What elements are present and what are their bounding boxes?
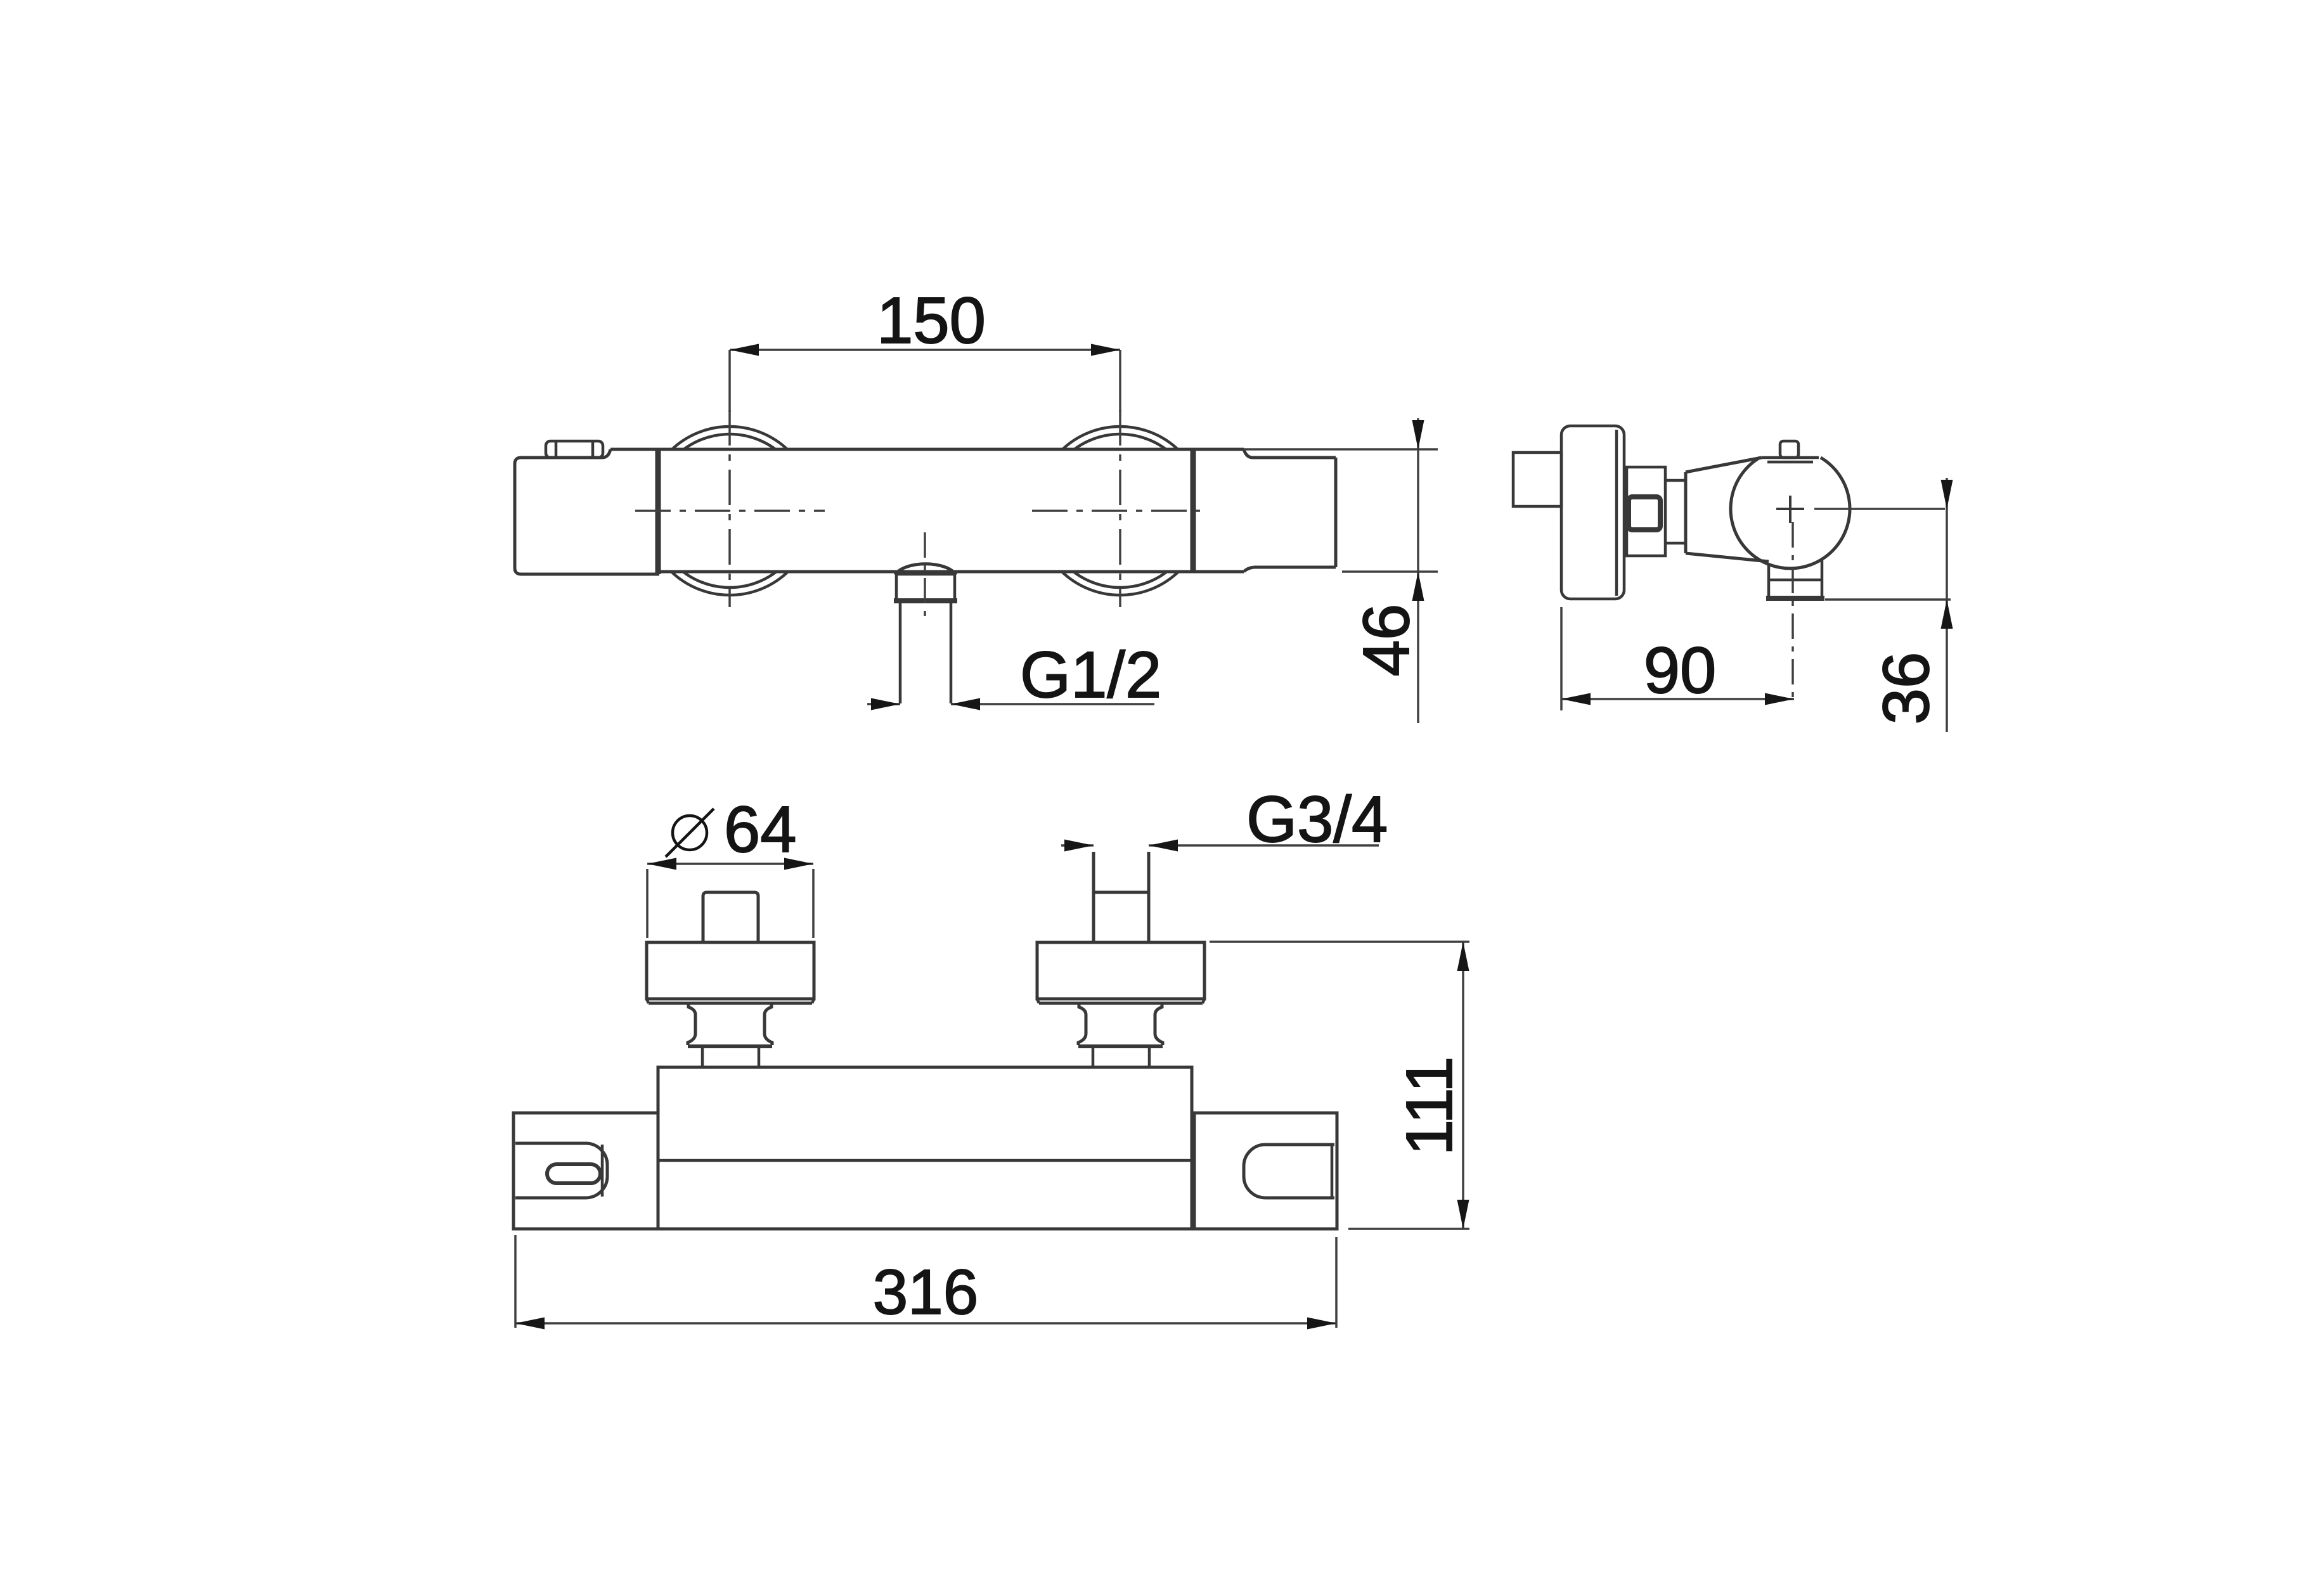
svg-text:46: 46 xyxy=(1350,604,1423,677)
svg-text:150: 150 xyxy=(877,284,986,357)
svg-text:36: 36 xyxy=(1869,652,1942,725)
svg-text:G1/2: G1/2 xyxy=(1020,638,1161,711)
svg-text:111: 111 xyxy=(1393,1056,1466,1156)
svg-text:64: 64 xyxy=(724,793,797,866)
svg-text:90: 90 xyxy=(1644,634,1717,707)
svg-text:G3/4: G3/4 xyxy=(1246,783,1388,856)
svg-text:316: 316 xyxy=(873,1257,979,1328)
